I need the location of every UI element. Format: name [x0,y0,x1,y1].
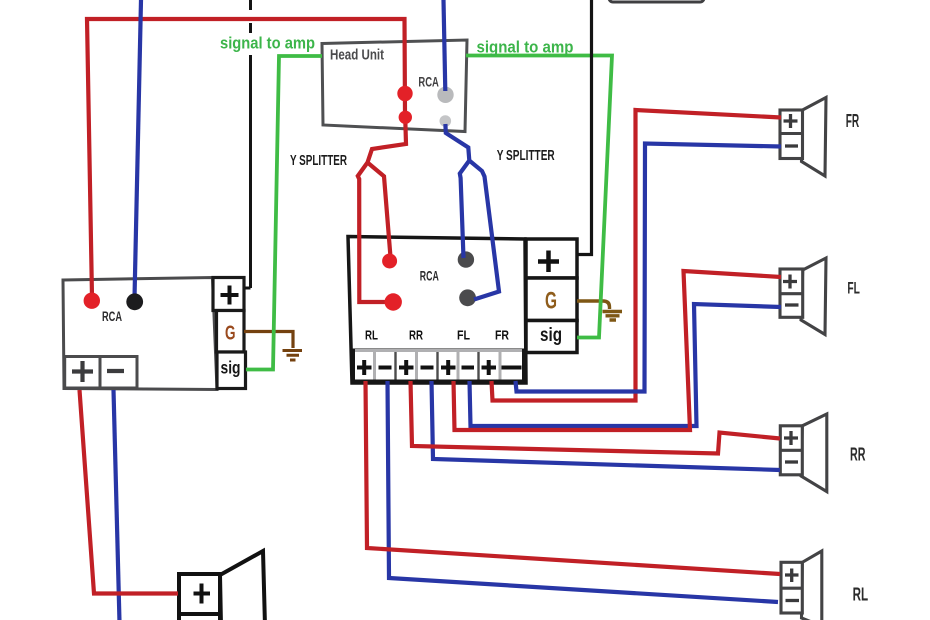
svg-text:RCA: RCA [420,267,439,283]
pin label - (U1 power) [107,369,124,373]
speaker RR terminal box [780,426,802,475]
node: U1 RCA input black [126,293,143,310]
wire blue: U2 FL- to speaker FL [470,304,782,426]
speaker FL cone [801,258,826,335]
svg-text:Y SPLITTER: Y SPLITTER [290,152,347,169]
svg-text:FL: FL [457,328,470,343]
node: U2 RCA input red 2 [385,293,402,310]
ground (left, chassis) [283,351,303,361]
pin + (FR speaker) [784,114,798,128]
wire green: head unit to amp U1 sig (signal turn-on) [246,56,322,370]
wire blue: U2 RR- to speaker RR [432,381,781,470]
node: head unit front RCA jack 2 (white) [440,115,452,127]
amp U2 G cell [526,278,577,321]
pin - (RL speaker) [786,599,800,602]
pin + (RL speaker) [785,569,799,583]
speaker FR terminal box [780,110,803,159]
svg-text:FL: FL [847,279,860,298]
svg-text:Y SPLITTER: Y SPLITTER [497,147,555,164]
wire blue: Y splitter (head unit front RCA to U2 inputs) [445,124,499,300]
pin + RR (U2 strip) [399,360,414,375]
speaker RL terminal box [781,562,802,613]
battery B1 (box cut off at top) [609,0,704,2]
svg-text:FR: FR [846,111,860,131]
pin + FR (U2 strip) [482,360,497,375]
amp U1 G cell [217,311,245,353]
pin label + (U2) [538,251,559,273]
node: U2 RCA input gray 2 [459,289,476,306]
amp U1 power terminal block [65,357,137,389]
wire red: U2 RR+ to speaker RR [411,381,781,454]
pin + RL (U2 strip) [357,360,372,375]
amp U1 + cell [213,278,244,311]
svg-text:sig: sig [540,325,562,346]
pin - (FL speaker) [785,303,799,306]
svg-text:RR: RR [850,444,866,464]
wire blue: head unit front RCA (from top) [444,0,446,91]
pin + FL (U2 strip) [441,360,456,375]
svg-text:RR: RR [409,328,423,343]
amp U2 speaker terminal strip [354,350,524,381]
pin - FR (U2 strip) [502,366,522,370]
svg-text:RL: RL [365,328,378,343]
pin - (FR speaker) [785,144,798,147]
svg-text:RL: RL [853,584,869,604]
pin + (subwoofer) [194,584,211,604]
amp U1 sig cell [217,352,246,389]
wire blue: U2 FR- to speaker FR [516,144,782,392]
amp U2 sig cell [526,321,577,353]
svg-text:FR: FR [495,328,509,343]
speaker FL terminal box [780,269,803,317]
pin - FL (U2 strip) [462,366,475,370]
wire black: battery + to amp U1 (dashed through firewall) [245,0,251,288]
head unit [322,40,467,132]
wire blue: U1 - to subwoofer [114,390,120,620]
amp U2 (4-channel amp) body [348,237,526,384]
speaker RL cone [802,551,822,620]
ground (middle, chassis) [603,312,623,321]
amp U2 + cell [526,239,577,278]
pin label + (U1) [221,286,239,305]
wire red: U2 RL+ to speaker RL [366,381,781,574]
node: U2 RCA input gray 1 [458,251,474,267]
pin - (RR speaker) [785,460,798,463]
node: head unit rear RCA jack 2 (red) [399,111,412,124]
wire green: head unit to amp U2 sig (signal turn-on) [466,56,612,338]
svg-text:signal to amp: signal to amp [220,34,315,53]
pin - RL (U2 strip) [379,366,392,370]
amp U1 (mono amp) body [63,278,217,390]
svg-text:RCA: RCA [418,75,439,90]
wire brown: U2 G to chassis ground [577,301,610,309]
wire red: U2 FL+ to speaker FL [454,271,782,430]
wire blue: U2 RL- to speaker RL [388,381,779,602]
pin + (RR speaker) [784,431,798,445]
pin + (FL speaker) [783,275,797,289]
speaker FR cone [802,98,827,177]
subwoofer terminal box [179,574,220,620]
node: head unit front RCA jack (white) [437,87,453,103]
wire red: U2 FR+ to speaker FR [492,110,782,401]
svg-text:RCA: RCA [102,309,122,324]
node: head unit rear RCA jack (red) [397,86,412,101]
wire red: Y splitter (head unit rear RCA to U2 inputs) [358,120,406,302]
wire black: battery + to amp U2 [578,0,592,255]
svg-text:G: G [545,288,557,315]
svg-text:signal to amp: signal to amp [477,37,574,56]
pin - RR (U2 strip) [421,366,434,370]
node: U2 RCA input red 1 [382,254,397,269]
wire red: U1 + to subwoofer + [80,390,179,594]
svg-text:Head Unit: Head Unit [330,47,384,64]
node: U1 RCA input red [84,293,100,309]
wire brown: U1 G to chassis ground [244,332,293,349]
wire red: head unit RCA to amp U1 RCA [87,19,405,297]
speaker RR cone [801,414,827,492]
svg-text:G: G [225,322,236,344]
svg-text:sig: sig [221,358,241,378]
wire blue: RCA to amp U1 (from top) [135,0,142,298]
pin label + (U1 power) [72,361,93,382]
subwoofer cone [220,551,265,620]
